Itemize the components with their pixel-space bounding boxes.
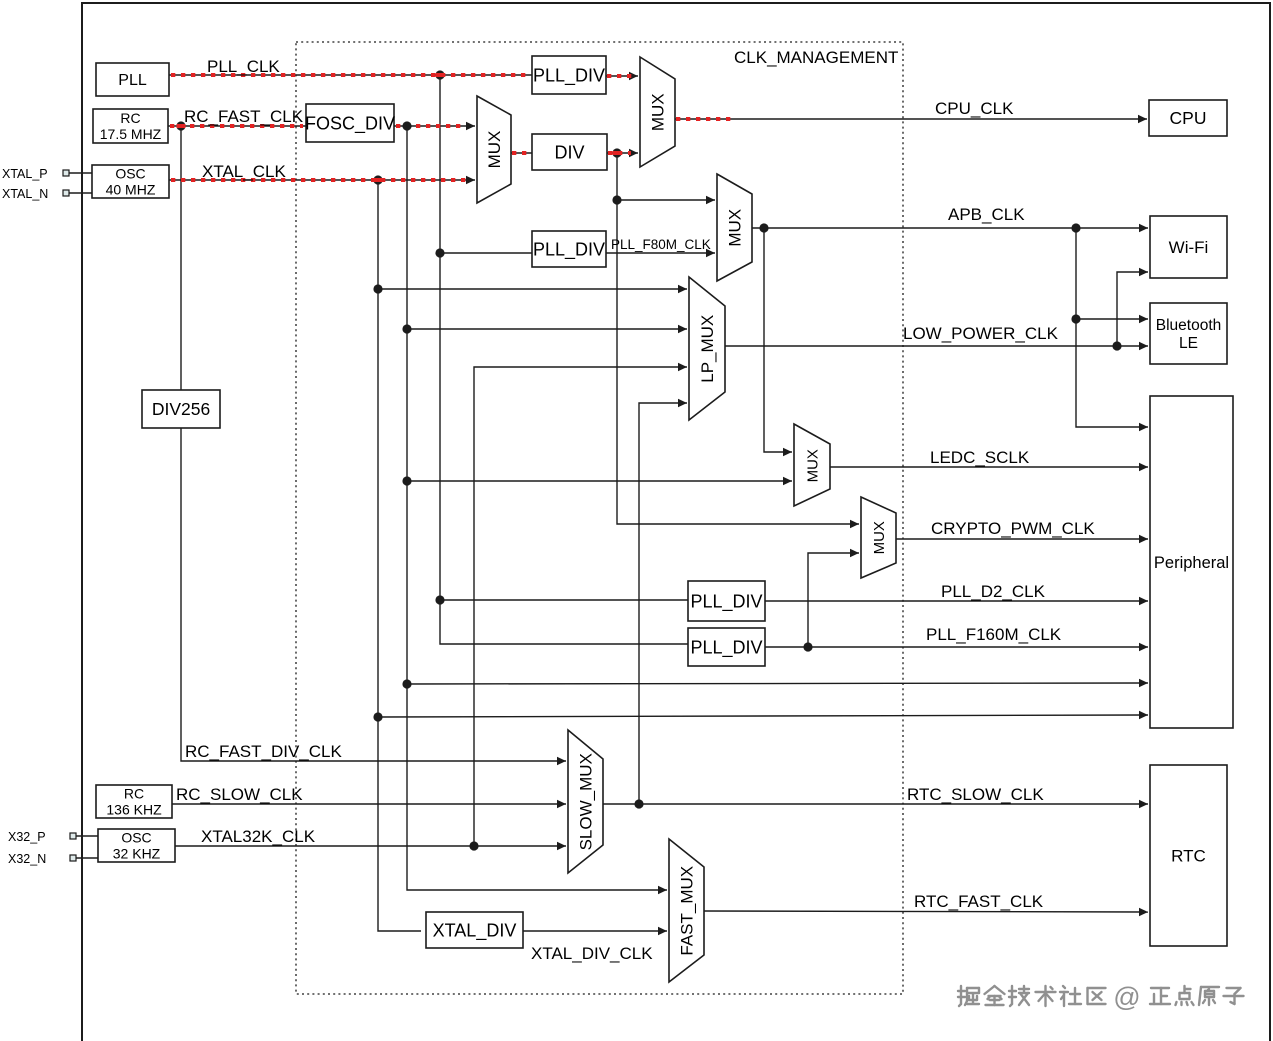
svg-text:CRYPTO_PWM_CLK: CRYPTO_PWM_CLK: [931, 519, 1095, 538]
svg-text:XTAL_P: XTAL_P: [2, 167, 48, 181]
label LEDC_SCLK: [930, 448, 1030, 467]
wire PLL_D2_CLK: [765, 597, 1148, 605]
wire RTC_SLOW riser x639: [639, 399, 687, 804]
svg-text:OSC: OSC: [121, 829, 151, 845]
pin XTAL_N: [2, 187, 69, 201]
wire PLL_CLK tap to PLL_DIV2: [440, 252, 532, 254]
block RC 136KHZ: [96, 785, 172, 818]
svg-text:MUX: MUX: [804, 449, 821, 482]
label CLK_MANAGEMENT: [734, 48, 898, 67]
svg-text:CLK_MANAGEMENT: CLK_MANAGEMENT: [734, 48, 898, 67]
label RC_FAST_DIV_CLK: [185, 742, 342, 761]
junction PLL_DIV2 tap: [435, 248, 444, 257]
junction FOSC LEDC tap: [402, 476, 411, 485]
svg-text:PLL_D2_CLK: PLL_D2_CLK: [941, 582, 1046, 601]
svg-text:PLL_CLK: PLL_CLK: [207, 57, 280, 76]
label RC_SLOW_CLK: [176, 785, 303, 804]
reddash MUX1 out: [512, 151, 531, 155]
svg-text:APB_CLK: APB_CLK: [948, 205, 1025, 224]
junction XTAL x378: [373, 175, 382, 184]
svg-text:SLOW_MUX: SLOW_MUX: [576, 753, 595, 850]
svg-text:DIV: DIV: [554, 142, 584, 162]
reddash DIV out: [608, 151, 631, 155]
junction APB BT tap: [1071, 314, 1080, 323]
wire MUX1 out to DIV: [511, 152, 532, 154]
wire PLL_F160M riser to CRYPTO mux: [808, 549, 859, 647]
svg-text:RC_FAST_CLK: RC_FAST_CLK: [184, 107, 304, 126]
svg-text:RC_FAST_DIV_CLK: RC_FAST_DIV_CLK: [185, 742, 342, 761]
wire PLL tap to PLL_DIV3: [440, 599, 688, 601]
label XTAL_CLK: [202, 162, 286, 181]
wire APB riser to LEDC mux: [764, 228, 792, 456]
svg-text:MUX: MUX: [871, 521, 888, 554]
label RTC_SLOW_CLK: [907, 785, 1044, 804]
label APB_CLK: [948, 205, 1025, 224]
junction x617 APB tap: [612, 195, 621, 204]
reddash FOSC_DIV out: [396, 124, 466, 128]
wire RC_FAST_DIV vertical bus below DIV256: [181, 428, 566, 765]
wire XTAL_P stub: [68, 172, 92, 174]
block OSC 32KHZ: [98, 829, 175, 862]
block RC 17.5MHZ: [93, 109, 168, 143]
block FOSC_DIV: [305, 104, 395, 142]
svg-text:XTAL32K_CLK: XTAL32K_CLK: [201, 827, 316, 846]
svg-text:XTAL_DIV_CLK: XTAL_DIV_CLK: [531, 944, 653, 963]
svg-text:XTAL_DIV: XTAL_DIV: [433, 920, 517, 941]
svg-text:@: @: [1113, 982, 1140, 1012]
svg-text:LE: LE: [1179, 335, 1198, 352]
mux FAST_MUX: [669, 839, 704, 982]
wire DIV out to MUX2: [607, 149, 638, 157]
wire DIV-out vertical bus x617: [617, 153, 859, 528]
svg-text:FAST_MUX: FAST_MUX: [677, 866, 696, 956]
label PLL_D2_CLK: [941, 582, 1046, 601]
svg-text:MUX: MUX: [648, 93, 667, 131]
wire CPU_CLK: [675, 115, 1147, 123]
wire LOW_POWER_CLK: [725, 342, 1148, 350]
junction RC_FAST x181: [176, 121, 185, 130]
svg-text:RC_SLOW_CLK: RC_SLOW_CLK: [176, 785, 303, 804]
label RTC_FAST_CLK: [914, 892, 1044, 911]
junction DIV out x617: [612, 148, 621, 157]
pin XTAL_P: [2, 167, 69, 181]
pin X32_N: [8, 852, 76, 866]
block RTC: [1150, 765, 1227, 946]
mux MUX2 cpu-clk: [640, 57, 675, 167]
reddash over junction x181: [177, 124, 186, 128]
block PLL_DIV U3: [688, 581, 765, 621]
reddash RC_FAST_CLK: [170, 124, 303, 128]
wire FOSC tap to LP_MUX in2: [407, 325, 687, 333]
wire APB branch to Bluetooth: [1076, 315, 1148, 323]
svg-text:CPU: CPU: [1170, 108, 1207, 128]
svg-text:Bluetooth: Bluetooth: [1156, 317, 1222, 334]
svg-text:X32_N: X32_N: [8, 852, 46, 866]
wire APB branch down to Peripheral: [1076, 228, 1148, 431]
block PLL_DIV U2: [532, 231, 606, 267]
mux MUX1 fast-clk: [477, 96, 511, 203]
wire APB_CLK: [752, 224, 1148, 232]
wire RC_FAST vertical bus x181: [180, 126, 182, 390]
svg-text:Peripheral: Peripheral: [1154, 554, 1229, 572]
svg-text:136 KHZ: 136 KHZ: [106, 802, 162, 818]
junction PLL_CLK x440: [435, 70, 444, 79]
svg-text:17.5 MHZ: 17.5 MHZ: [100, 126, 162, 142]
wire X32_P stub: [76, 835, 98, 837]
junction LOW_POWER at x1117: [1112, 341, 1121, 350]
wire XTAL_N stub: [68, 192, 92, 194]
block OSC 40MHZ: [92, 165, 169, 198]
wire XTAL32K_CLK: [175, 842, 566, 850]
svg-text:PLL_DIV: PLL_DIV: [533, 239, 605, 260]
wire PLL_CLK: [169, 74, 532, 76]
junction FOSC Peripheral tap: [402, 679, 411, 688]
svg-text:40 MHZ: 40 MHZ: [106, 181, 156, 197]
mux MUX5 crypto: [861, 497, 896, 578]
block CPU: [1149, 100, 1227, 136]
reddash over junction x440: [436, 73, 445, 77]
wire CRYPTO_PWM_CLK: [896, 535, 1148, 543]
svg-text:LOW_POWER_CLK: LOW_POWER_CLK: [903, 324, 1059, 343]
svg-text:FOSC_DIV: FOSC_DIV: [305, 113, 395, 134]
block PLL: [96, 63, 169, 96]
junction APB at x1076: [1071, 223, 1080, 232]
svg-text:LEDC_SCLK: LEDC_SCLK: [930, 448, 1030, 467]
wire FOSC vertical bus x407: [407, 126, 667, 894]
watermark 掘金技术社区 @ 正点原子: [958, 982, 1245, 1012]
svg-text:PLL: PLL: [118, 72, 147, 89]
mux LP_MUX: [689, 277, 725, 420]
block DIV256: [142, 390, 220, 428]
reddash over junction x617: [613, 151, 622, 155]
junction XTAL32K x474: [469, 841, 478, 850]
svg-text:PLL_DIV: PLL_DIV: [533, 65, 605, 86]
block Peripheral: [1150, 396, 1233, 728]
wire PLL vertical bus x440: [440, 75, 688, 644]
junction XTAL LP tap: [373, 284, 382, 293]
label PLL_F80M_CLK: [611, 237, 711, 252]
block DIV: [532, 134, 607, 170]
wire XTAL tap to LP_MUX in1: [378, 285, 687, 293]
dashed CLK_MANAGEMENT boundary: [296, 42, 903, 994]
label PLL_CLK: [207, 57, 280, 76]
wire XTAL_DIV out to FAST_MUX: [523, 927, 667, 935]
wire LEDC_SCLK: [830, 463, 1148, 471]
junction XTAL Peripheral tap: [373, 712, 382, 721]
label LOW_POWER_CLK: [903, 324, 1059, 343]
wire X32_N stub: [76, 857, 98, 859]
svg-text:XTAL_N: XTAL_N: [2, 187, 48, 201]
svg-text:RC: RC: [120, 110, 140, 126]
junction FOSC out x407: [402, 121, 411, 130]
svg-text:PLL_F80M_CLK: PLL_F80M_CLK: [611, 237, 711, 252]
label XTAL_DIV_CLK: [531, 944, 653, 963]
wire PLL_F160M_CLK: [765, 643, 1148, 651]
svg-text:32 KHZ: 32 KHZ: [113, 846, 161, 862]
junction PLL_F160M x808: [803, 642, 812, 651]
svg-text:Wi-Fi: Wi-Fi: [1169, 238, 1209, 257]
svg-text:MUX: MUX: [485, 131, 504, 169]
wire FOSC_DIV out to MUX1: [394, 122, 475, 130]
svg-text:DIV256: DIV256: [152, 399, 210, 419]
block PLL_DIV U1: [532, 56, 606, 94]
svg-text:RC: RC: [124, 785, 144, 801]
wire x617 to MUX3 input1: [617, 196, 715, 204]
reddash CPU_CLK: [676, 117, 734, 121]
label CRYPTO_PWM_CLK: [931, 519, 1095, 538]
block Wi-Fi: [1150, 216, 1227, 278]
wire XTAL_CLK: [169, 176, 475, 184]
svg-text:X32_P: X32_P: [8, 830, 46, 844]
wire RC_FAST_CLK: [168, 125, 306, 127]
wire FOSC tap to Peripheral: [407, 679, 1148, 687]
label CPU_CLK: [935, 99, 1014, 118]
wire XTAL32K riser x474: [474, 363, 687, 846]
mux MUX4 ledc: [794, 424, 830, 506]
junction PLL_DIV3 tap: [435, 595, 444, 604]
wire LOW_POWER riser to Wi-Fi: [1117, 268, 1148, 346]
svg-text:XTAL_CLK: XTAL_CLK: [202, 162, 286, 181]
mux MUX3 apb-clk: [717, 174, 752, 281]
label RC_FAST_CLK: [184, 107, 304, 126]
label XTAL32K_CLK: [201, 827, 316, 846]
svg-text:PLL_DIV: PLL_DIV: [690, 637, 762, 658]
svg-text:RTC: RTC: [1171, 847, 1206, 866]
block Bluetooth LE: [1150, 303, 1227, 364]
svg-text:RTC_FAST_CLK: RTC_FAST_CLK: [914, 892, 1044, 911]
svg-text:LP_MUX: LP_MUX: [698, 315, 717, 383]
junction APB out: [759, 223, 768, 232]
mux SLOW_MUX: [568, 730, 603, 873]
reddash PLL_CLK: [171, 73, 529, 77]
pin X32_P: [8, 830, 76, 844]
svg-text:PLL_DIV: PLL_DIV: [690, 591, 762, 612]
svg-text:RTC_SLOW_CLK: RTC_SLOW_CLK: [907, 785, 1044, 804]
label PLL_F160M_CLK: [926, 625, 1062, 644]
block XTAL_DIV: [426, 912, 523, 948]
wire PLL_DIV1 to MUX2: [606, 72, 638, 80]
wire RTC_SLOW_CLK: [603, 800, 1148, 808]
reddash XTAL_CLK: [171, 178, 466, 182]
svg-text:PLL_F160M_CLK: PLL_F160M_CLK: [926, 625, 1062, 644]
wire RC_SLOW_CLK: [172, 800, 566, 808]
wire RTC_FAST_CLK: [704, 908, 1148, 916]
reddash over junction x378: [374, 178, 383, 182]
wire PLL_F80M_CLK to MUX3: [606, 249, 715, 257]
wire XTAL vertical bus x378: [378, 180, 421, 931]
block PLL_DIV U4: [688, 628, 765, 666]
reddash PLL_DIV1 out: [607, 74, 632, 78]
wire FOSC tap to LEDC mux in2: [407, 477, 792, 485]
svg-text:CPU_CLK: CPU_CLK: [935, 99, 1014, 118]
svg-text:OSC: OSC: [115, 165, 145, 181]
wire XTAL tap to Peripheral: [378, 711, 1148, 719]
svg-text:MUX: MUX: [725, 209, 744, 247]
junction RTC_SLOW x639: [634, 799, 643, 808]
junction FOSC LP tap: [402, 324, 411, 333]
